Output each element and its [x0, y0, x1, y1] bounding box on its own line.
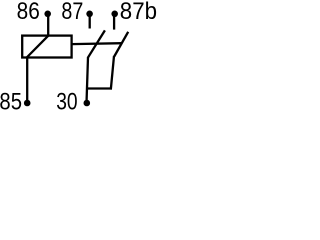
actuator linkage from coil to contact arms — [72, 42, 122, 45]
wire: pivot line from arm 87 down to 30 dot — [87, 57, 88, 100]
wire: right pivot line up to arm 87b — [111, 56, 114, 90]
svg-text:87: 87 — [61, 0, 83, 25]
wire: stub from 86 dot down to coil box top — [47, 14, 49, 36]
svg-text:86: 86 — [17, 0, 40, 25]
wire: stub from 87b dot down (fixed contact 87b) — [113, 14, 115, 30]
terminal dot 87b — [111, 11, 118, 18]
terminal dot 87 — [86, 11, 93, 18]
wire: bottom bar joining both contact pivots — [87, 87, 111, 89]
svg-text:85: 85 — [0, 89, 22, 116]
contact arm 87 (movable, normally open) — [88, 30, 105, 57]
contact arm 87b (movable, normally open) — [114, 32, 128, 57]
svg-text:30: 30 — [56, 89, 77, 116]
terminal dot 30 — [84, 100, 91, 107]
terminal dot 85 — [24, 100, 31, 107]
relay coil K1 (box) — [22, 36, 71, 58]
wire: stub from 87 dot down (fixed contact 87) — [89, 14, 91, 29]
relay coil winding diagonal — [27, 36, 49, 58]
svg-text:87b: 87b — [120, 0, 157, 25]
terminal dot 86 — [44, 11, 51, 18]
wire: vertical down to 85 dot — [26, 58, 28, 101]
